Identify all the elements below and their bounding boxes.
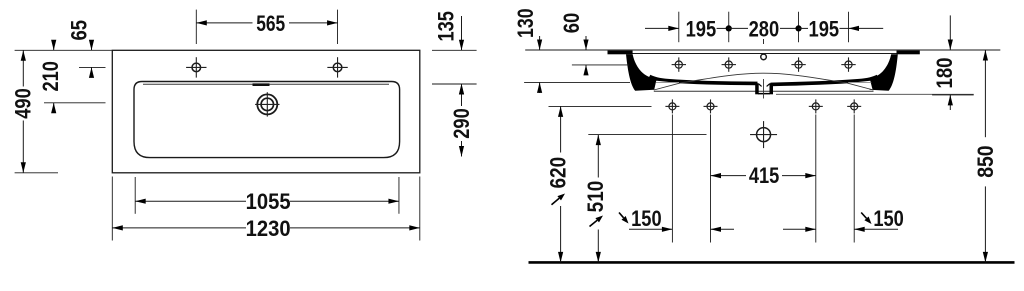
lower hole witness line 2 <box>710 115 712 243</box>
dim 620 extension line <box>549 105 652 107</box>
dim 620 slope arrow <box>552 198 560 204</box>
front view slab underside line <box>630 53 898 55</box>
lower mounting hole 3 (front view) <box>812 103 819 110</box>
faucet hole left (top view) <box>192 63 201 72</box>
dim 1230 witness right <box>419 177 421 241</box>
basin interior flat bottom line right (in notch) <box>848 82 871 84</box>
dimension 1230 <box>112 227 246 229</box>
dimension 620 <box>560 106 562 152</box>
overflow center tick <box>763 39 765 44</box>
dim 150 right slope arrow <box>861 213 866 219</box>
front edge extension line <box>15 172 58 174</box>
deck faucet hole 3 (front view) <box>795 61 802 68</box>
dim 565 witness line right <box>337 10 339 44</box>
deck faucet hole 1 (front view) <box>675 61 682 68</box>
overflow slot dash (top view) <box>253 83 270 86</box>
basin floor cut line left (thick) <box>650 76 758 83</box>
svg-text:850: 850 <box>973 145 998 177</box>
dimension 135 <box>461 16 463 50</box>
svg-text:150: 150 <box>631 206 662 231</box>
lower hole witness line 4 <box>853 115 855 243</box>
drain trap (black U section) <box>755 83 759 94</box>
dim separator dot left <box>726 25 732 31</box>
dimension 565 <box>196 22 252 24</box>
basin bottom edge line (thin) <box>654 90 874 92</box>
ceramic bottom edge line right <box>776 93 974 95</box>
dimension 150 left <box>629 228 672 230</box>
dimension 510 <box>597 135 599 178</box>
dimension 290 <box>461 84 463 106</box>
dim 1055 witness right <box>398 177 400 214</box>
deck faucet hole 4 (front view) <box>845 61 852 68</box>
dim 60 extension line <box>572 64 629 66</box>
dim 195/280 witness line 4 <box>848 12 850 43</box>
washbasin outer rim (top view) <box>112 50 420 173</box>
dim 565 witness line left <box>195 10 197 44</box>
svg-text:135: 135 <box>434 11 459 42</box>
dimension 850 <box>984 50 986 137</box>
deck faucet hole 2 (front view) <box>725 61 732 68</box>
dim 130 extension line <box>524 81 630 83</box>
dim 195/280 witness line 3 <box>798 12 800 43</box>
front view top edge line <box>525 49 1000 51</box>
svg-text:490: 490 <box>11 88 36 119</box>
floor line <box>529 261 1015 264</box>
dim 195/280 witness line 2 <box>728 12 730 43</box>
dimension 490 <box>22 50 24 86</box>
svg-text:510: 510 <box>583 181 608 213</box>
svg-text:565: 565 <box>256 11 285 36</box>
drain flange slant right <box>767 84 770 87</box>
dim 1055 witness left <box>134 177 136 214</box>
dim 850 extension line top <box>921 49 1000 51</box>
dim 510 slope arrow <box>590 220 598 226</box>
dimension 65 <box>91 40 93 50</box>
drain outlet (front view) <box>757 128 771 142</box>
lower mounting hole 2 (front view) <box>707 103 714 110</box>
dimension 130 <box>539 36 541 50</box>
svg-text:290: 290 <box>449 108 474 139</box>
basin floor cut line right (thick) <box>771 76 878 84</box>
drain centerline extension <box>44 102 106 104</box>
svg-text:130: 130 <box>513 8 538 38</box>
svg-text:195: 195 <box>686 16 717 41</box>
lower mounting hole 1 (front view) <box>669 103 676 110</box>
svg-text:210: 210 <box>38 61 63 92</box>
basin far rim curve (thin) <box>654 73 874 90</box>
dimension 60 <box>585 36 587 50</box>
dimension 210 <box>53 40 55 50</box>
svg-text:195: 195 <box>809 16 840 41</box>
left white notch in basin wall <box>655 81 681 90</box>
washbasin inner basin edge (top view) <box>134 82 400 158</box>
dimension 180 <box>949 15 951 50</box>
dim 195/280 witness line 1 <box>678 12 680 43</box>
slab cut section right (black) <box>897 51 920 55</box>
basin left wall cut section (black) <box>626 54 657 91</box>
svg-text:620: 620 <box>546 157 571 189</box>
basin right wall cut section (black) <box>867 54 898 91</box>
dimension 195 left <box>645 27 679 29</box>
right white notch in basin wall <box>846 81 872 90</box>
dim 135 extension line bottom <box>432 83 477 85</box>
drain flange slant left <box>759 84 762 87</box>
dim 150 left slope arrow <box>619 213 624 218</box>
lower hole witness line 3 <box>815 115 817 243</box>
svg-text:280: 280 <box>749 16 780 41</box>
overflow hole (front view) <box>761 54 767 60</box>
svg-text:60: 60 <box>559 13 584 34</box>
faucet hole right (top view) <box>333 63 342 72</box>
dimension 415 <box>711 175 747 177</box>
dimension 1055 <box>135 200 246 202</box>
svg-text:150: 150 <box>873 206 904 231</box>
svg-text:180: 180 <box>932 58 957 89</box>
rear edge extension line <box>15 49 112 51</box>
drain hole (top view) <box>257 94 277 114</box>
dimension 150 right <box>783 228 816 230</box>
lower mounting hole 4 (front view) <box>851 103 858 110</box>
dim 135 extension line top <box>432 49 477 51</box>
dim 1230 witness left <box>111 177 113 241</box>
svg-text:415: 415 <box>749 163 780 188</box>
faucet centerline extension <box>79 66 106 68</box>
svg-text:1055: 1055 <box>246 189 291 214</box>
drain center extension line (510) <box>588 134 706 136</box>
svg-text:65: 65 <box>66 20 91 41</box>
drain trap centerline <box>763 79 765 99</box>
lower hole witness line 1 <box>671 115 673 243</box>
basin interior flat bottom line left (in notch) <box>656 82 679 84</box>
dim separator dot right <box>795 25 801 31</box>
svg-text:1230: 1230 <box>246 216 291 241</box>
basin inner secondary edge line <box>143 83 389 85</box>
dim 180 extension line bottom <box>932 94 974 96</box>
slab cut section left (black) <box>608 51 633 55</box>
